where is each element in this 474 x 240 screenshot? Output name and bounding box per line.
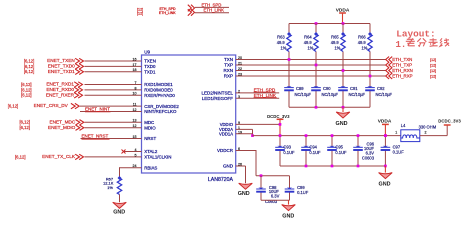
resistor R64 <box>304 32 318 51</box>
ground R67 <box>113 202 127 215</box>
capacitor C97 <box>381 144 405 154</box>
power symbol VDDA bottom <box>378 119 392 136</box>
wire VDDA rail bottom <box>253 135 401 137</box>
svg-text:11: 11 <box>133 103 137 107</box>
off-page flag ETH_LINK <box>159 9 195 16</box>
power symbol DCDC_3V3 right <box>438 119 461 126</box>
wire ETH_TXN <box>236 59 386 61</box>
capacitor C94 <box>301 144 321 154</box>
junction R65 line <box>342 69 345 72</box>
svg-text:ENET_TXD1: ENET_TXD1 <box>48 69 75 74</box>
svg-text:C89: C89 <box>296 86 304 91</box>
svg-text:NC/10µF: NC/10µF <box>349 92 366 97</box>
svg-text:[6,12]: [6,12] <box>15 154 25 159</box>
svg-text:[12]: [12] <box>137 12 143 16</box>
junction rail C95 <box>331 134 334 137</box>
svg-text:12: 12 <box>133 108 137 112</box>
pin 11 CSR_DV/MODE2 wire <box>80 103 179 109</box>
pin 20 TXN <box>224 56 242 62</box>
wire column C93 <box>279 136 281 148</box>
wire VDD2A pin1 <box>236 128 253 130</box>
power symbol VDDA top <box>336 7 350 23</box>
svg-text:NC/10µF: NC/10µF <box>376 92 393 97</box>
svg-text:0.1UF: 0.1UF <box>393 149 405 154</box>
svg-text:C90: C90 <box>323 86 331 91</box>
junction rail C97 <box>384 134 387 137</box>
svg-text:ENET_RXER: ENET_RXER <box>46 92 75 97</box>
svg-text:R63: R63 <box>277 35 285 40</box>
pin 13 MDC wire <box>85 119 155 125</box>
off-page flag ENET_TX_CLK <box>15 154 83 160</box>
pin 21 TXP <box>224 62 242 68</box>
svg-text:13: 13 <box>133 119 137 123</box>
svg-text:49.9: 49.9 <box>304 40 313 45</box>
capacitor C95 <box>327 144 347 154</box>
svg-text:C0603: C0603 <box>265 199 278 204</box>
svg-text:TXD1: TXD1 <box>144 70 156 75</box>
svg-text:16: 16 <box>133 57 137 61</box>
svg-text:GND: GND <box>379 181 391 187</box>
svg-text:U9: U9 <box>144 49 150 54</box>
net label ETH_SPD pin2 <box>254 87 276 92</box>
svg-text:DCDC_3V3: DCDC_3V3 <box>267 114 290 119</box>
svg-text:C92: C92 <box>377 86 385 91</box>
svg-text:49.9: 49.9 <box>331 40 340 45</box>
pin 12 MDIO wire <box>85 124 157 130</box>
pin 2 LED2/NINTSEL <box>201 89 240 95</box>
svg-text:VDD1A: VDD1A <box>219 131 233 136</box>
junction gnd rail <box>305 165 308 168</box>
off-page flag ENET_TXD0 <box>24 64 84 70</box>
svg-text:XTAL1/CLKIN: XTAL1/CLKIN <box>144 155 171 160</box>
svg-text:ENET_TXEN: ENET_TXEN <box>47 58 75 63</box>
ground bottom center <box>379 166 393 187</box>
svg-text:RXN: RXN <box>223 68 233 73</box>
pin 1 VDD2A <box>219 126 240 132</box>
resistor R65 <box>331 32 345 51</box>
capacitor C99 <box>285 185 309 195</box>
wire GND rail mid <box>289 106 370 108</box>
ground C99 <box>282 200 296 219</box>
svg-text:[6,12]: [6,12] <box>20 125 30 130</box>
resistor R66 <box>358 32 372 51</box>
pin 7 RXD1/MODE1 wire <box>85 81 174 87</box>
off-page flag ENET_MDC <box>20 119 84 125</box>
off-page flag ENET_TXD1 <box>24 69 84 75</box>
wire C98 leads <box>260 176 262 190</box>
pin 22 RXN <box>223 67 242 73</box>
svg-text:LED1/REGOFF: LED1/REGOFF <box>202 96 234 101</box>
wire column C94 <box>305 136 307 148</box>
pin 16 TXEN wire <box>85 57 156 63</box>
svg-text:Layout:: Layout: <box>396 29 435 40</box>
junction R66 line <box>369 75 372 78</box>
off-page flag ENET_TXEN <box>24 58 84 64</box>
svg-text:C95: C95 <box>335 144 343 149</box>
off-page flag ENET_RXER <box>21 92 82 98</box>
inductor L4 <box>395 123 437 142</box>
svg-text:GND: GND <box>113 209 125 215</box>
net label ETH_LINK top <box>204 8 225 13</box>
svg-text:C94: C94 <box>309 144 317 149</box>
junction top rail R65 <box>342 22 345 25</box>
wire VDDA rail top <box>289 23 370 25</box>
svg-text:7: 7 <box>135 81 137 85</box>
wire ETH_RXN <box>236 70 386 72</box>
svg-text:[6,12]: [6,12] <box>24 64 34 69</box>
wire ETH_SPD pin2 <box>236 92 280 94</box>
wire VDDIO pin9 <box>236 123 280 125</box>
wire ETH_LINK stub <box>195 12 229 14</box>
junction rail C93 <box>279 134 282 137</box>
svg-text:0.1UF: 0.1UF <box>335 150 347 155</box>
svg-text:ETH_LINK: ETH_LINK <box>159 11 176 15</box>
junction gnd rail C90 <box>315 106 318 109</box>
off-page flag ENET_MDIO <box>20 125 84 131</box>
ground pin26 <box>238 183 253 197</box>
junction gnd rail <box>357 165 360 168</box>
ground mid <box>336 107 350 127</box>
svg-text:VDDA: VDDA <box>378 119 392 125</box>
svg-text:6.3V: 6.3V <box>271 193 280 198</box>
pin 12 NINT/REFCLKO wire <box>80 108 177 114</box>
wire C99 leads <box>289 176 291 190</box>
svg-text:R64: R64 <box>304 35 312 40</box>
svg-text:ENET_RXD0: ENET_RXD0 <box>46 87 74 92</box>
svg-text:TXN: TXN <box>224 57 233 62</box>
svg-text:12: 12 <box>133 124 137 128</box>
svg-text:[6,12]: [6,12] <box>21 82 31 87</box>
svg-text:18: 18 <box>133 68 137 72</box>
wire VDDCR pin6 <box>236 150 256 152</box>
svg-text:RBIAS: RBIAS <box>144 165 157 170</box>
wire GND rail bottom <box>280 165 385 167</box>
wire GND pin26 <box>236 165 246 167</box>
junction C98 top <box>260 174 263 177</box>
pin 9 VDDIO <box>220 121 240 127</box>
svg-text:GND: GND <box>336 121 348 127</box>
svg-text:GND: GND <box>238 191 250 197</box>
wire column C95 <box>331 136 333 148</box>
net label ENET_NINT <box>85 107 111 112</box>
svg-text:[6,12]: [6,12] <box>8 104 18 109</box>
page ref [12] ETH_SPD <box>137 8 143 16</box>
wire VDD join <box>252 129 254 135</box>
power symbol DCDC_3V3 left <box>267 114 290 136</box>
svg-text:0.1UF: 0.1UF <box>283 150 295 155</box>
net label ENET_NRST <box>82 134 110 140</box>
svg-text:17: 17 <box>133 63 137 67</box>
svg-text:NC/10µF: NC/10µF <box>322 92 339 97</box>
svg-text:ETH_RXP: ETH_RXP <box>392 74 412 79</box>
net label ETH_LINK pin3 <box>254 93 277 98</box>
text CJK layout note <box>406 38 449 46</box>
svg-text:1%: 1% <box>334 46 340 51</box>
svg-text:RXD0/MODE0: RXD0/MODE0 <box>144 88 173 93</box>
junction R64 line <box>315 64 318 67</box>
junction VDD1A <box>251 134 254 137</box>
capacitor C96 <box>353 142 375 161</box>
net label ETH_SPD top <box>202 2 222 7</box>
off-page flag ETH_RXN <box>386 68 436 74</box>
off-page flag ETH_TXN <box>386 57 436 63</box>
svg-text:C0603: C0603 <box>362 155 375 160</box>
pin 24 RBIAS wire <box>120 164 158 178</box>
svg-text:1.: 1. <box>396 40 407 50</box>
junction R63 line <box>288 58 291 61</box>
off-page flag ETH_TXP <box>386 62 436 68</box>
wire R67 to gnd <box>119 195 121 203</box>
junction rail C96 <box>357 134 360 137</box>
pin 10 RXER/PHYAD0 wire <box>85 92 176 98</box>
svg-text:ENET_RXD1: ENET_RXD1 <box>46 82 74 87</box>
svg-text:R65: R65 <box>331 35 339 40</box>
svg-text:CSR_DV/MODE2: CSR_DV/MODE2 <box>144 104 179 109</box>
svg-text:[12]: [12] <box>430 58 436 62</box>
svg-text:ENET_TXD0: ENET_TXD0 <box>48 64 75 69</box>
svg-text:ETH_TXP: ETH_TXP <box>392 63 412 68</box>
pin 5 XTAL1/CLKIN wire <box>85 153 172 159</box>
svg-text:1%: 1% <box>307 46 313 51</box>
svg-text:VDDCR: VDDCR <box>217 148 234 153</box>
pin 15 NRST wire <box>81 135 157 141</box>
svg-text:15: 15 <box>133 135 137 139</box>
wire ETH_LINK pin3 <box>236 97 280 99</box>
capacitor C93 <box>275 144 295 154</box>
off-page flag ETH_RXP <box>386 73 436 79</box>
svg-text:1%: 1% <box>361 46 367 51</box>
svg-text:[12]: [12] <box>430 64 436 68</box>
svg-text:C91: C91 <box>350 86 358 91</box>
capacitor C92 <box>365 86 392 97</box>
capacitor C98 <box>256 185 279 204</box>
svg-text:49.9: 49.9 <box>358 40 367 45</box>
svg-text:10: 10 <box>133 92 137 96</box>
pin 4 XTAL2 wire <box>124 148 158 154</box>
svg-text:ETH_TXN: ETH_TXN <box>392 57 412 62</box>
svg-text:GND: GND <box>282 213 294 219</box>
pin 6 VDDCR <box>217 147 240 153</box>
svg-text:MDIO: MDIO <box>144 125 156 130</box>
off-page flag ENET_RXD1 <box>21 82 82 88</box>
wire L4 to DCDC <box>420 135 447 137</box>
off-page flag ETH_SPD <box>159 5 194 12</box>
wire column R66 <box>369 24 371 34</box>
svg-text:ENET_CRS_DV: ENET_CRS_DV <box>34 103 69 108</box>
svg-text:[12]: [12] <box>430 75 436 79</box>
junction gnd rail C91 <box>342 106 345 109</box>
wire column C97 <box>384 136 386 148</box>
off-page flag ENET_CRS_DV <box>8 103 79 109</box>
svg-text:ENET_NINT: ENET_NINT <box>85 107 110 112</box>
junction VDDA stem <box>384 134 387 137</box>
resistor R67 <box>103 176 122 194</box>
svg-text:LAN8720A: LAN8720A <box>208 177 234 183</box>
svg-text:GND: GND <box>223 164 234 169</box>
svg-text:4: 4 <box>135 148 137 152</box>
svg-text:TXD0: TXD0 <box>144 64 156 69</box>
svg-text:[6,12]: [6,12] <box>24 69 34 74</box>
wire ETH_TXP <box>236 64 386 66</box>
svg-text:NC/10µF: NC/10µF <box>295 92 312 97</box>
wire column R64 <box>315 24 317 34</box>
svg-text:RXD1/MODE1: RXD1/MODE1 <box>144 82 173 87</box>
svg-text:ENET_NRST: ENET_NRST <box>82 134 109 139</box>
capacitor C91 <box>338 86 365 97</box>
svg-text:ENET_MDIO: ENET_MDIO <box>48 125 76 130</box>
svg-text:0.1UF: 0.1UF <box>297 190 309 195</box>
wire column C96 <box>357 136 359 148</box>
pin 8 RXD0/MODE0 wire <box>85 86 174 92</box>
svg-text:2: 2 <box>425 130 427 134</box>
svg-text:[6,12]: [6,12] <box>21 87 31 92</box>
svg-text:330 OHM: 330 OHM <box>419 125 437 130</box>
svg-text:TXP: TXP <box>224 63 233 68</box>
wire column R63 <box>288 24 290 34</box>
junction top rail R64 <box>315 22 318 25</box>
pin 26 GND <box>223 163 242 169</box>
svg-text:MDC: MDC <box>144 120 154 125</box>
junction gnd rail C97 <box>384 165 387 168</box>
resistor R63 <box>277 32 291 51</box>
capacitor C89 <box>284 86 311 97</box>
no-connect X on XTAL2 <box>122 150 126 154</box>
pin 23 RXP <box>224 73 242 79</box>
svg-text:DCDC_3V3: DCDC_3V3 <box>438 119 461 124</box>
text Layout note <box>396 29 436 50</box>
svg-text:0.1UF: 0.1UF <box>309 150 321 155</box>
svg-text:24: 24 <box>133 164 137 168</box>
svg-text:RXP: RXP <box>224 74 233 79</box>
junction VDDIO stem <box>279 123 282 126</box>
svg-text:ENET_MDC: ENET_MDC <box>50 119 76 124</box>
svg-text:LED2/NINTSEL: LED2/NINTSEL <box>201 91 233 96</box>
wire ETH_SPD stub <box>195 6 229 8</box>
svg-text:1: 1 <box>395 130 397 134</box>
svg-text:49.9: 49.9 <box>277 40 286 45</box>
svg-text:[6,12]: [6,12] <box>21 93 31 98</box>
capacitor C90 <box>311 86 338 97</box>
svg-text:RXER/PHYAD0: RXER/PHYAD0 <box>144 93 175 98</box>
off-page flag ENET_RXD0 <box>21 87 82 93</box>
pin 19 VDD1A <box>219 130 242 136</box>
svg-text:1%: 1% <box>280 46 286 51</box>
svg-text:1%: 1% <box>107 185 113 190</box>
svg-text:ETH_RXN: ETH_RXN <box>392 68 413 73</box>
pin 17 TXD0 wire <box>85 63 156 69</box>
wire ETH_RXP <box>236 75 386 77</box>
junction rail C94 <box>305 134 308 137</box>
svg-text:[12]: [12] <box>430 69 436 73</box>
svg-text:[6,12]: [6,12] <box>24 58 34 63</box>
svg-text:TXEN: TXEN <box>144 59 156 64</box>
svg-text:R66: R66 <box>358 35 366 40</box>
svg-text:8: 8 <box>135 86 137 90</box>
pin 3 LED1/REGOFF <box>202 95 240 101</box>
pin 18 TXD1 wire <box>85 68 156 74</box>
wire VDD1A pin19 <box>236 133 253 135</box>
IC U9 LAN8720A body <box>142 49 236 183</box>
svg-text:L4: L4 <box>401 123 406 128</box>
wire C98 C99 gnd rail <box>261 199 290 201</box>
svg-text:NRST: NRST <box>144 136 156 141</box>
wire column R65 <box>342 24 344 34</box>
svg-text:ENET_TX_CLK: ENET_TX_CLK <box>42 154 76 159</box>
svg-text:[6,12]: [6,12] <box>20 120 30 125</box>
svg-text:5: 5 <box>135 153 137 157</box>
svg-text:C93: C93 <box>283 144 291 149</box>
junction gnd rail <box>331 165 334 168</box>
svg-text:NINT/REFCLKO: NINT/REFCLKO <box>144 109 177 114</box>
svg-text:ETH_LINK: ETH_LINK <box>204 8 225 13</box>
svg-text:XTAL2: XTAL2 <box>144 149 158 154</box>
